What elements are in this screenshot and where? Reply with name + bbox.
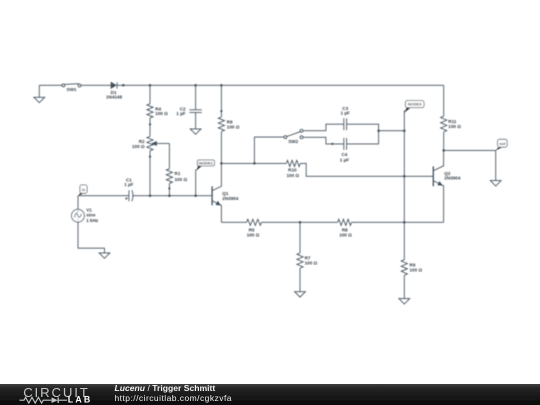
node flag out xyxy=(496,139,508,150)
node dot R6 top xyxy=(220,110,222,112)
svg-text:2N3904: 2N3904 xyxy=(222,196,239,201)
svg-text:out: out xyxy=(499,141,506,146)
label C4 xyxy=(340,152,349,163)
svg-text:V1: V1 xyxy=(86,207,92,212)
node dot Q1 collector junction xyxy=(220,162,223,165)
resistor R8 xyxy=(338,219,444,225)
capacitor C4 xyxy=(344,138,347,150)
wire (SW2 bottom throw) xyxy=(303,137,344,144)
node dot row/R1 xyxy=(168,194,171,197)
label D1 xyxy=(106,90,123,100)
logo diode xyxy=(52,397,68,403)
resistor R6 xyxy=(218,85,224,163)
node dot row/NODE2 xyxy=(194,194,197,197)
node dot row/R7 xyxy=(299,221,302,224)
svg-text:http://circuitlab.com/cgkzvfa: http://circuitlab.com/cgkzvfa xyxy=(115,393,232,403)
node dot R2 bottom xyxy=(149,156,151,158)
label R6 xyxy=(227,119,240,129)
wire xyxy=(347,124,379,144)
switch SW1 xyxy=(62,84,81,87)
logo resistor xyxy=(20,397,52,403)
svg-text:LAB: LAB xyxy=(68,394,93,404)
svg-text:100 Ω: 100 Ω xyxy=(132,144,145,149)
wire xyxy=(168,188,170,195)
resistor R11 xyxy=(441,85,447,150)
transistor Q2 2N3904 xyxy=(433,150,443,222)
label C3 xyxy=(341,106,350,116)
node dot R11/Q2 collector xyxy=(442,149,445,152)
wire (caps out to NODE3) xyxy=(379,130,405,132)
capacitor C3 xyxy=(344,118,347,130)
svg-text:in: in xyxy=(82,187,86,192)
label R7 xyxy=(305,255,318,265)
label R11 xyxy=(448,119,461,129)
ground (out) xyxy=(490,181,501,186)
capacitor C1 (polarized) xyxy=(125,190,133,201)
wire (SW2 top throw) xyxy=(303,124,344,131)
node dot R1 bottom xyxy=(168,187,170,189)
footer bar xyxy=(0,384,540,405)
node dot after D1 xyxy=(122,84,125,87)
svg-text:2N3904: 2N3904 xyxy=(444,176,461,181)
label R2 xyxy=(132,139,145,149)
svg-text:100 Ω: 100 Ω xyxy=(175,177,188,182)
ground (under C2) xyxy=(190,129,201,134)
label V1 xyxy=(86,207,99,223)
resistor R5 xyxy=(247,219,338,225)
label R1 xyxy=(175,171,188,182)
svg-text:NODE3: NODE3 xyxy=(408,102,423,107)
node dot rail/R4 xyxy=(149,84,152,87)
label R8 xyxy=(339,228,352,238)
capacitor C2 xyxy=(189,85,201,129)
node dot C4 left xyxy=(331,143,333,145)
node dot R4 bottom xyxy=(149,123,151,125)
resistor R4 xyxy=(147,85,153,124)
label R10 xyxy=(286,168,299,178)
node dot rail/C2 xyxy=(194,84,197,87)
node flag NODE2 xyxy=(196,160,215,196)
svg-text:100 Ω: 100 Ω xyxy=(448,124,461,129)
svg-text:1 µF: 1 µF xyxy=(341,111,350,116)
wire (wiper to R1) xyxy=(168,144,170,169)
resistor R7 xyxy=(297,222,303,291)
wire (collector to SW2 branch) xyxy=(221,162,254,164)
label Q2 xyxy=(444,171,461,181)
node dot rail/R6 xyxy=(220,84,223,87)
ground (under R9) xyxy=(399,299,410,304)
ground (under V1) xyxy=(99,253,110,258)
resistor R9 xyxy=(401,260,407,299)
switch SW2 xyxy=(254,129,303,163)
transistor Q1 2N3904 xyxy=(212,163,221,222)
svg-text:R9: R9 xyxy=(410,262,416,267)
svg-text:100 Ω: 100 Ω xyxy=(247,232,260,237)
node dot SW2 branch xyxy=(253,162,256,165)
node flag in xyxy=(78,185,87,196)
diode D1 1N4148 xyxy=(111,82,117,88)
wire xyxy=(39,84,62,86)
emitter row wire xyxy=(221,221,246,223)
svg-text:1 µF: 1 µF xyxy=(340,158,349,163)
svg-text:100 Ω: 100 Ω xyxy=(305,261,318,266)
input wire row xyxy=(78,195,129,197)
resistor R10 xyxy=(254,160,433,176)
ground (top left) xyxy=(34,85,45,102)
svg-text:100 Ω: 100 Ω xyxy=(339,232,352,237)
label C1 xyxy=(124,178,133,187)
svg-text:100 Ω: 100 Ω xyxy=(227,125,240,130)
svg-text:Q1: Q1 xyxy=(222,191,229,196)
svg-text:SW2: SW2 xyxy=(288,139,298,144)
label R9 xyxy=(410,262,423,272)
label Q1 xyxy=(222,191,239,201)
wire xyxy=(149,157,151,196)
node dot caps right xyxy=(377,129,380,132)
voltage source V1 xyxy=(72,196,105,253)
svg-text:1 µF: 1 µF xyxy=(124,182,133,187)
ground (under R7) xyxy=(295,292,306,297)
svg-text:NODE2: NODE2 xyxy=(199,161,214,166)
svg-text:100 Ω: 100 Ω xyxy=(155,111,168,116)
wire (NODE3 vertical) xyxy=(403,110,405,259)
wire (top rail) xyxy=(117,84,444,86)
svg-text:R1: R1 xyxy=(175,171,181,176)
node dot NODE3/base wire xyxy=(403,175,406,178)
svg-text:Lucenu / Trigger Schmitt: Lucenu / Trigger Schmitt xyxy=(115,383,216,393)
wire xyxy=(132,195,212,197)
label C2 xyxy=(176,106,186,116)
label R5 xyxy=(247,228,260,238)
svg-text:C4: C4 xyxy=(341,152,347,157)
node dot row/R9 xyxy=(403,221,406,224)
svg-text:1 kHz: 1 kHz xyxy=(86,218,99,223)
wire (out) xyxy=(444,150,496,180)
potentiometer R2 xyxy=(147,124,170,156)
label R4 xyxy=(155,106,168,116)
node dot row/R2 xyxy=(149,194,152,197)
svg-text:1N4148: 1N4148 xyxy=(106,95,123,100)
svg-text:100 Ω: 100 Ω xyxy=(286,173,299,178)
resistor R1 xyxy=(166,169,172,189)
svg-text:R7: R7 xyxy=(305,255,311,260)
svg-text:SW1: SW1 xyxy=(67,87,77,92)
svg-text:100 Ω: 100 Ω xyxy=(410,268,423,273)
wire xyxy=(81,84,111,86)
svg-text:1 µF: 1 µF xyxy=(176,111,185,116)
node dot NODE3/caps xyxy=(403,129,406,132)
node flag NODE3 xyxy=(404,101,424,113)
